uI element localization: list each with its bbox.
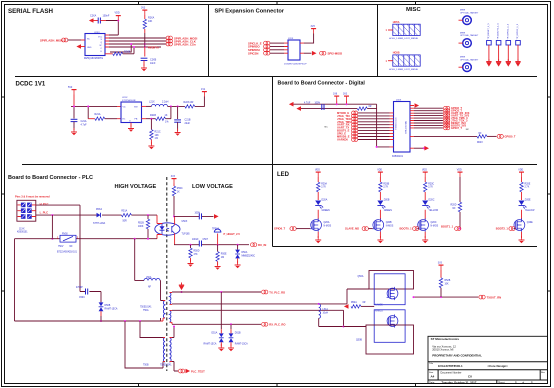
port left 3 [352,117,358,121]
ground TVS1 [218,344,224,351]
svg-text:100K: 100K [138,226,144,228]
row P2 secondary mid [172,289,369,304]
svg-text:D51A: D51A [212,332,218,335]
svg-text:2.7K: 2.7K [321,187,326,189]
svg-text:2.7K: 2.7K [428,187,433,189]
opto pin stub top-right [174,216,176,224]
T1 primary pin stubs [161,301,166,322]
svg-text:R20E: R20E [525,184,531,186]
pin stub Vin [117,106,121,118]
transformer T1 primary winding [163,301,165,319]
led5 wire resistor to diode [521,192,523,200]
capacitor rail bypass [322,104,324,110]
svg-text:2.7K: 2.7K [383,187,388,189]
wire SPIMISO [270,46,284,48]
svg-text:U50X: U50X [182,221,188,223]
T2 pin stubs [163,338,172,362]
svg-text:Q20C: Q20C [431,222,437,224]
regulator U21X [121,97,142,122]
port left 1 [352,111,358,115]
optical target 2 [463,39,472,48]
filter coil L51A [319,304,321,318]
svg-text:R20A: R20A [321,183,327,186]
svg-text:1K: 1K [177,191,180,193]
svg-text:VDD: VDD [377,170,382,172]
resistor R04X [477,135,487,138]
inductor L50A [144,279,160,281]
svg-text:100nF: 100nF [192,239,199,241]
transformer T1 secondary upper winding [170,293,171,305]
wire left 5 [358,124,390,126]
svg-text:EVALKIT8T8500-1: EVALKIT8T8500-1 [438,364,463,368]
wire MOSI row [109,37,167,39]
test point TP1 wire [488,45,490,61]
connector J1XX pin pads [21,203,32,219]
port left 6 [352,126,358,130]
pull-up R50C wire upper [173,184,175,187]
pull-up column power flag [458,172,463,177]
port left 9 [352,135,358,139]
input rail wire [71,106,117,118]
svg-text:K0500101CU: K0500101CU [396,117,398,130]
svg-text:R21A: R21A [95,113,101,116]
svg-text:Tuesday, October 31, 2017: Tuesday, October 31, 2017 [442,381,477,385]
junction L_PLC at MOV branch [51,214,53,216]
svg-text:OPTICAL_TARGET: OPTICAL_TARGET [460,58,479,61]
optical target 3 [463,63,472,72]
port left 4 [352,120,358,124]
T2 left top feed [140,321,163,338]
test point TP4 ground [515,59,520,67]
power flag VDD [116,16,121,21]
junction filter coil [318,303,320,305]
frame zone ticks top [139,2,416,5]
svg-text:22uF: 22uF [185,122,191,125]
series resistor R2XB [113,52,123,55]
svg-text:TX_PLC_RO: TX_PLC_RO [269,290,285,294]
wire right 1 [414,107,443,109]
section divider: dcdc / digital (vertical) and digital/led left border [272,77,274,247]
led3 wire resistor to diode [424,192,426,200]
flash memory U2XX [85,32,105,56]
resistor R51B across opto LED [147,215,149,219]
T2 right top wire [172,327,174,338]
optical target 1 [463,16,472,25]
junction TVS1 column P1 [220,291,222,293]
svg-text:C2XA: C2XA [90,15,97,18]
junction TVS on W3 [100,320,102,322]
ground 1M [215,263,221,270]
ground serial flash [141,64,147,71]
wire left 10 [358,139,390,141]
port SPI2-MISO [320,51,326,55]
svg-text:ST1PS01EJR: ST1PS01EJR [122,100,136,102]
resistor R50D 47K [190,245,192,248]
junction loop C [130,43,132,45]
rail 1V8 wire [294,103,377,105]
svg-text:PLC_TEST: PLC_TEST [191,369,205,373]
wire left 1 [358,112,390,114]
rail 3V3 wire [301,108,357,110]
wire R21A to EN pin [105,118,117,120]
wire left 8 [358,133,390,135]
junction VDD rail [117,20,119,22]
resistor R22X [185,105,195,108]
pin stub GND [81,46,85,48]
frame zone ticks left [2,97,5,291]
svg-text:NC: NC [325,127,329,129]
svg-text:R50C: R50C [177,188,183,190]
mounting hole HOLE1 [393,24,420,35]
power arrow SPI2-MISO [312,51,317,56]
power flag 1V1 [202,92,207,97]
svg-text:0R: 0R [369,106,372,108]
svg-text:GPIO7_T: GPIO7_T [451,126,462,130]
pull-up wire lower [459,212,461,229]
resistor R20A [317,182,320,192]
svg-text:MIRE: MIRE [460,57,466,59]
connector J1XX outer body [17,200,36,221]
connector J1XX pin hatch [22,203,32,218]
connector J2XX [288,40,300,60]
FB node vertical wire [170,106,172,118]
test point TP2 pad [496,41,501,46]
svg-text:LOW VOLTAGE: LOW VOLTAGE [192,184,233,190]
pin stub target 1 [459,19,463,21]
svg-text:3V3: 3V3 [171,176,176,178]
junction FB node [170,105,172,107]
wire left 7 [358,130,390,132]
svg-text:2.7K: 2.7K [525,187,530,189]
svg-text:C50C: C50C [79,297,85,299]
wire RESET row [109,46,161,48]
svg-text:C507: C507 [203,239,209,241]
svg-text:10K: 10K [445,283,450,285]
svg-text:3V3: 3V3 [343,94,348,96]
svg-text:OPTICAL_TARGET: OPTICAL_TARGET [460,11,479,14]
wire rail to corner [367,104,389,147]
upper fet body box [374,274,405,305]
svg-text:<Core Design>: <Core Design> [487,364,508,368]
svg-text:SPICSN: SPICSN [248,51,258,55]
svg-text:R20B: R20B [383,184,389,186]
port SPIFLASH_MISO [62,38,68,42]
svg-text:STTH-L06A: STTH-L06A [93,222,106,225]
section divider: serial flash / spi [208,5,210,77]
junctions MOV row [134,238,136,240]
loop wire C to lower pin [110,44,131,52]
loop wire D to resistor row [133,47,135,54]
title block outline [428,336,548,383]
svg-text:100N: 100N [315,102,321,104]
wire right 3 [414,112,443,114]
power flag 3V3D [344,96,349,101]
svg-text:3V3: 3V3 [311,25,316,28]
upper bridge mosfet [387,287,398,300]
svg-text:OPTICAL_TARGET: OPTICAL_TARGET [460,34,479,37]
junction bottom row [423,147,425,149]
svg-text:TXOUT_RN: TXOUT_RN [487,295,502,299]
svg-text:R20C: R20C [428,184,434,186]
port BOOT0_1 [413,227,419,231]
port left 8 [352,132,358,136]
wire R21C to ground [150,140,152,145]
stub cap to ground [143,61,145,67]
pin stub FB [142,118,147,120]
svg-text:0R: 0R [363,302,366,304]
junction collector node [173,215,175,217]
svg-text:5V0: 5V0 [68,86,73,89]
TVS D51B [229,333,234,342]
test point TP50A [214,229,221,232]
TVS2 column wire [230,324,232,329]
resistor R30X on rail [357,107,367,110]
svg-text:20010 Xxxxxx, MI: 20010 Xxxxxx, MI [432,348,453,352]
zener D50A [237,245,239,250]
port right 3 [444,111,450,115]
junction 100K parallel [147,214,149,216]
svg-text:Q50A: Q50A [358,275,364,278]
svg-text:100nF: 100nF [103,15,110,18]
svg-text:D51B: D51B [235,333,241,335]
lower fet body box [374,310,405,343]
svg-text:N-MOS: N-MOS [375,305,383,307]
port SPIFLASH_CSn [166,42,172,46]
resistor R21A [95,117,105,120]
stub flag to resistor [144,15,146,19]
section divider: spi / misc [377,5,379,77]
long wire GPIO0 row [414,135,477,137]
junction 47K column [190,244,192,246]
svg-text:W: W [100,45,102,47]
svg-text:Pins 3 & 6 must be removed: Pins 3 & 6 must be removed [15,195,50,199]
svg-text:Q50B: Q50B [356,340,362,342]
svg-text:TP50A: TP50A [212,228,219,231]
svg-text:K0500101: K0500101 [392,155,404,158]
port right 5 [444,116,450,120]
T2 left bottom loop [125,321,163,368]
output cap C21B [174,120,181,122]
svg-text:SPIFLASH_CSn: SPIFLASH_CSn [174,42,196,46]
led2 wire diode to fet drain [379,210,381,238]
svg-text:DCDC 1V1: DCDC 1V1 [16,81,46,87]
test point TP3 wire [507,45,509,61]
svg-text:R20D: R20D [451,205,457,207]
port RX_IN [251,243,257,247]
output cap vertical wire [177,106,179,119]
mosfet Q20A [310,218,321,231]
power arrow collector row [214,214,219,219]
pin stub HOLE1 [388,29,393,31]
LED column 2 power flag [378,172,383,177]
svg-text:4.7UF: 4.7UF [304,102,311,104]
svg-text:HO5B: HO5B [393,52,400,55]
resistor R51A [121,213,131,216]
svg-text:P_HIGHT_2.5: P_HIGHT_2.5 [224,232,241,236]
svg-text:N-MOS: N-MOS [375,311,383,313]
svg-text:R52A: R52A [351,301,357,304]
capacitor C50A on collector row [199,213,201,219]
svg-text:YELLOW: YELLOW [525,210,535,212]
svg-text:T50B: T50B [143,365,149,367]
pull-up resistor R2XA power flag [142,10,147,15]
power flag SPI 3V3 [311,29,316,34]
wire right 2 [414,110,443,112]
svg-text:D50B: D50B [105,305,111,307]
port right 7 [444,121,450,125]
svg-text:R22X-0R: R22X-0R [184,101,194,104]
svg-text:TLP185: TLP185 [182,234,191,236]
pull-up wire lower [173,196,175,216]
pull-up wire upper [459,177,461,202]
inductor L21X [152,104,168,106]
ground zener [235,261,241,268]
port BOOT2_1 [509,227,515,231]
svg-text:RV50: RV50 [62,233,68,235]
led5 wire diode to fet drain [521,210,523,238]
power arrow rail 1V8 [289,102,294,107]
pin stub HOLE2 [388,60,393,62]
wire FB to divider [146,118,171,120]
test point TP2 wire [498,45,500,61]
junction pullup output [440,296,442,298]
svg-text:T50A: T50A [143,309,149,312]
LED D20E [519,201,527,209]
pin stub SW [142,105,147,107]
test point TP4 wire [517,45,519,61]
collector row wire [174,215,214,217]
junction secondary top [181,291,183,293]
TP50A stub [217,234,219,245]
isolation dashed line [166,177,168,371]
section divider above PLC and LED [22,164,537,166]
wire gate led2 [368,228,372,230]
svg-text:VDD: VDD [115,12,120,15]
svg-text:RX_IN: RX_IN [258,243,266,247]
wire resistor down through rows [144,29,146,33]
svg-text:L_PLC: L_PLC [40,211,49,215]
wire L_PLC down to MOV row [51,215,53,239]
capacitor C2XB [141,58,148,60]
wire SPIMOSI [270,49,284,51]
svg-text:BOOT1_1: BOOT1_1 [441,224,454,228]
svg-text:D20B: D20B [384,200,390,202]
wire right 6 [414,120,443,122]
lower bridge cell box [366,325,414,354]
port BOOT1_1 [455,227,461,231]
svg-text:CU: CU [468,375,472,379]
junction 3V3D [346,103,348,105]
svg-text:Q20A: Q20A [324,221,330,224]
wire R22X to 1V1 flag [195,97,205,107]
pin stubs J2XX right [300,43,304,53]
wire L50A to T1 [160,281,163,301]
led1 wire resistor to diode [317,192,319,200]
wire output cap to ground [177,122,179,131]
svg-text:L50A: L50A [146,276,152,279]
power arrow rail 3V3 [296,106,301,111]
test point TP3 ground [506,59,511,67]
svg-text:HO5A: HO5A [393,21,400,24]
VDD rail wire [106,21,118,36]
svg-text:MIRE: MIRE [460,10,466,12]
svg-text:2.2uH: 2.2uH [162,100,169,103]
led1 wire flag to resistor [317,177,319,182]
led5 wire flag to resistor [521,177,523,182]
svg-text:VDD: VDD [315,170,320,172]
svg-text:GPIO6_T: GPIO6_T [274,227,286,231]
svg-text:R21B: R21B [150,114,156,117]
pullup wire txout [440,270,442,278]
ground stub regulator [130,123,132,128]
svg-text:Board to Board Connector - Dig: Board to Board Connector - Digital [278,80,366,86]
port right 1 [444,106,450,110]
wire 5V0 to input rail [73,95,75,107]
test point TP1 pad [487,41,492,46]
wire gate led5 [514,228,516,230]
svg-text:GREEN: GREEN [384,210,393,212]
port SPIMOSI [264,48,270,52]
power arrow bottom port [186,369,191,374]
port RX_PLC_RO [262,322,268,326]
resistor R20E [520,182,523,192]
power arrow bottom [424,146,429,151]
svg-text:D50A: D50A [242,251,248,254]
svg-text:U21X: U21X [122,97,128,99]
wire arrow to cap C2XA [94,20,99,22]
ground led3 [422,236,428,243]
svg-text:BTB_DIGITAL: BTB_DIGITAL [405,120,408,134]
svg-text:N-MOS: N-MOS [431,225,439,227]
junction T2 bottom feed [124,320,126,322]
wire J2XX to power [304,34,314,44]
svg-text:MISC: MISC [406,7,421,13]
svg-text:R51B: R51B [138,223,144,225]
svg-text:1K: 1K [165,114,168,117]
LED block bottom border [273,246,538,248]
svg-text:RX_PLC_RO: RX_PLC_RO [269,323,285,327]
row P4 secondary bottom [172,323,261,325]
junction MOV row left [51,238,53,240]
resistor R50C [172,186,175,196]
svg-text:R51A: R51A [121,210,127,213]
svg-text:RAMT-15CA: RAMT-15CA [204,343,217,346]
stub 3V3D to rail [346,101,348,104]
port left 2 [352,114,358,118]
resistor R52B [439,278,442,288]
svg-text:47K: 47K [194,254,199,256]
port TXOUT_RN [479,295,485,299]
T2 right bottom wire [172,362,178,372]
led2 wire resistor to diode [379,192,381,200]
junction pull-up [459,228,461,230]
led2 wire flag to resistor [379,177,381,182]
LED column 1 power flag [316,172,321,177]
power flag DVDD [334,96,339,101]
pin stub MISO [81,39,85,41]
svg-text:D20E: D20E [525,200,531,202]
wire gate to fet box [361,305,374,307]
svg-text:SLAVE_MS: SLAVE_MS [345,227,359,231]
title block text: company [429,337,546,385]
pin stubs J3XX right [410,106,414,149]
svg-text:750510141: 750510141 [140,307,152,309]
port SPICSN [264,51,270,55]
pin stub target 2 [459,42,463,44]
svg-text:Document Number: Document Number [441,372,462,375]
junction FB divider [150,118,152,120]
ground led2 [377,236,383,243]
